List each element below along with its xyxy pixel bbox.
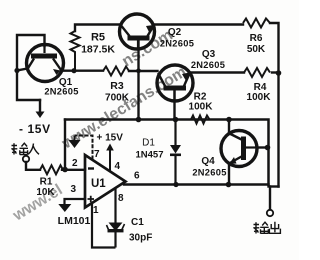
resistor R1: [40, 165, 63, 174]
svg-text:2N2605: 2N2605: [192, 168, 226, 178]
diode D1: [170, 120, 181, 185]
wire emitter row Q1-R5-R3: [61, 69, 103, 71]
svg-text:50K: 50K: [247, 44, 266, 55]
op-amp pin3 ground arrow: [58, 199, 85, 212]
svg-text:R1: R1: [40, 177, 53, 188]
resistor R4: [244, 68, 270, 77]
svg-text:2N2605: 2N2605: [160, 39, 194, 49]
wire R6 corner down right rail: [270, 23, 279, 187]
transistor Q1: [27, 44, 64, 82]
wire Q2 emitter to R6: [154, 23, 244, 25]
svg-text:1: 1: [93, 205, 99, 216]
svg-text:Q4: Q4: [201, 156, 215, 167]
svg-text:U1: U1: [91, 178, 106, 190]
junction Q3 base / D1 / mid rail: [173, 117, 179, 123]
wire Q1 collector to rail: [17, 69, 28, 71]
junction R1 / pin 2 summing node: [62, 167, 68, 173]
label R2: [189, 92, 214, 113]
svg-text:100K: 100K: [247, 92, 272, 103]
junction Q2 base drop / mid rail: [136, 117, 142, 123]
resistor R3: [103, 67, 129, 76]
resistor R2: [191, 116, 210, 124]
label R6: [247, 33, 266, 55]
svg-text:7: 7: [94, 149, 100, 160]
power -15V arrowhead: [36, 112, 45, 119]
svg-text:Q2: Q2: [168, 27, 182, 38]
capacitor C1: [107, 188, 125, 248]
wire Q3 base drop: [173, 90, 175, 120]
svg-text:100K: 100K: [189, 102, 214, 113]
label 输入 input: [11, 143, 39, 154]
svg-text:1N457: 1N457: [136, 150, 164, 161]
wire mid rail: [65, 120, 269, 185]
wire Q2 base drop: [137, 41, 139, 120]
wire R4 right lead: [272, 71, 279, 73]
power -15V arrow: [39, 100, 41, 111]
label R3: [105, 80, 130, 104]
svg-text:30pF: 30pF: [129, 233, 152, 244]
wire Q4 collector up: [228, 120, 230, 135]
transistor Q2: [120, 14, 155, 49]
wire input to R1: [26, 162, 40, 170]
svg-text:R6: R6: [250, 33, 263, 44]
svg-text:R5: R5: [91, 32, 105, 44]
svg-text:R3: R3: [110, 80, 124, 92]
label R5: [81, 32, 115, 56]
junction Q4 base / right loop: [265, 145, 271, 151]
svg-text:2: 2: [72, 158, 78, 169]
junction R5 bottom / emitter row: [71, 68, 76, 73]
svg-text:700K: 700K: [105, 93, 130, 104]
junction Q2 base / R3 node: [136, 68, 141, 73]
svg-text:D1: D1: [142, 138, 155, 149]
wire output row pin6: [124, 183, 269, 185]
label D1: [136, 138, 164, 161]
wire Q4 emitter down: [228, 164, 230, 185]
svg-text:2N2605: 2N2605: [44, 87, 78, 97]
label R4: [247, 82, 272, 103]
svg-text:www.elecfans.com: www.elecfans.com: [58, 63, 189, 153]
svg-text:187.5K: 187.5K: [81, 44, 115, 56]
power +15V arrow pin4: [106, 144, 114, 172]
wire mid rail to pin2: [64, 120, 66, 170]
svg-text:+ 15V: + 15V: [97, 133, 124, 144]
wire R3 to Q3: [129, 70, 158, 72]
svg-text:6: 6: [134, 171, 140, 182]
transistor Q3: [157, 65, 193, 101]
transistor Q4: [221, 131, 258, 167]
wire bottom right corner: [269, 185, 279, 187]
svg-text:C1: C1: [131, 217, 144, 228]
junction Q4 collector / mid rail: [226, 117, 232, 123]
wire R5 top corner to Q2: [75, 25, 121, 32]
label Q2: [160, 27, 194, 49]
label Q4: [192, 156, 226, 178]
junction D1 cathode / output row: [173, 182, 178, 187]
label C1: [129, 217, 152, 244]
wire Q3 emitter to R4: [189, 71, 244, 73]
resistor R5: [71, 31, 80, 71]
wire output drop: [269, 187, 271, 210]
label 输出 output: [253, 222, 280, 234]
resistor R6: [243, 19, 270, 28]
junction R4 / right rail: [276, 70, 282, 76]
wire R1 to pin 2: [62, 169, 85, 171]
terminal input: [23, 156, 29, 162]
op-amp U1: [85, 155, 126, 208]
label Q1: [44, 77, 78, 97]
wire Q1 base loop to left rail: [17, 35, 45, 100]
svg-text:4: 4: [115, 161, 121, 172]
op-amp pin7 wire with down arrow: [69, 136, 93, 160]
svg-text:2N2605: 2N2605: [191, 60, 225, 70]
op-amp pin1 loop: [92, 203, 116, 248]
terminal output: [267, 210, 273, 216]
svg-text:3: 3: [71, 184, 77, 195]
svg-text:Q3: Q3: [202, 49, 216, 60]
label Q3: [191, 49, 225, 70]
svg-text:- 15V: - 15V: [19, 122, 51, 136]
svg-text:10K: 10K: [36, 187, 55, 198]
svg-text:8: 8: [118, 193, 124, 204]
svg-text:LM101: LM101: [58, 215, 91, 227]
wire Q4 base right: [258, 146, 269, 148]
label R1: [36, 177, 55, 199]
junction Q1 collector / left rail: [14, 68, 19, 73]
watermark: [9, 27, 189, 225]
junction Q4 emitter / output row: [226, 182, 232, 188]
